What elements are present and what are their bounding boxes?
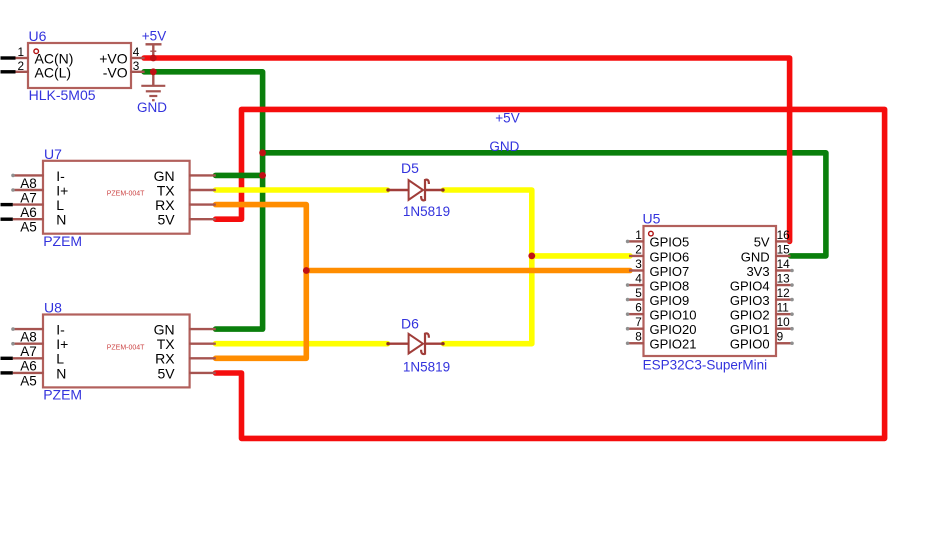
junction dot TX node — [528, 253, 535, 260]
svg-text:A5: A5 — [20, 373, 37, 388]
junction dot +VO/+5V — [150, 55, 157, 62]
wire U7 GN to GND vertical (green) — [216, 173, 263, 179]
svg-text:A6: A6 — [20, 359, 37, 374]
svg-text:L: L — [56, 197, 64, 213]
svg-text:I+: I+ — [56, 182, 68, 198]
svg-text:3: 3 — [133, 59, 140, 73]
svg-text:GND: GND — [489, 139, 519, 154]
svg-text:-VO: -VO — [103, 64, 128, 80]
svg-text:GPIO2: GPIO2 — [730, 307, 770, 322]
svg-text:TX: TX — [157, 182, 176, 198]
svg-text:GPIO6: GPIO6 — [650, 249, 690, 264]
wire D5 cathode / D6 cathode vertical (yellow) — [443, 190, 531, 344]
svg-text:D5: D5 — [401, 160, 419, 176]
svg-text:13: 13 — [777, 271, 791, 285]
svg-text:AC(L): AC(L) — [35, 64, 72, 80]
svg-text:A5: A5 — [20, 220, 37, 235]
svg-text:5V: 5V — [157, 212, 175, 228]
PZEM module U8 PZEM-004T — [11, 315, 216, 388]
svg-text:12: 12 — [777, 286, 790, 300]
svg-text:L: L — [56, 351, 64, 367]
svg-text:U7: U7 — [44, 146, 62, 162]
wire U8 TX to diode D6 (yellow) — [216, 341, 388, 347]
wire U7 TX to diode D5 (yellow) — [216, 187, 388, 193]
svg-text:A7: A7 — [20, 344, 37, 359]
wire N input (black, U8) — [1, 371, 13, 374]
svg-text:1N5819: 1N5819 — [403, 204, 450, 219]
power flag +5V — [146, 44, 162, 58]
svg-text:I-: I- — [56, 322, 65, 338]
PZEM module U7 PZEM-004T — [11, 161, 216, 234]
junction dot GND line at green vertical — [259, 149, 266, 156]
wire GND net: U6 -VO down to U8 GN (green) — [144, 72, 263, 329]
svg-text:GPIO7: GPIO7 — [650, 264, 690, 279]
svg-text:9: 9 — [777, 330, 784, 344]
svg-text:5V: 5V — [754, 235, 770, 250]
diode D6 1N5819 — [386, 333, 444, 354]
svg-text:HLK-5M05: HLK-5M05 — [29, 87, 96, 103]
svg-text:8: 8 — [635, 330, 642, 344]
power module U6 HLK-5M05 — [16, 43, 145, 88]
svg-text:GPIO21: GPIO21 — [650, 337, 697, 352]
svg-text:GPIO3: GPIO3 — [730, 293, 770, 308]
svg-text:A7: A7 — [20, 190, 37, 205]
svg-text:10: 10 — [777, 315, 791, 329]
svg-text:2: 2 — [635, 242, 642, 256]
svg-text:TX: TX — [157, 336, 176, 352]
svg-text:4: 4 — [635, 271, 642, 285]
wire GND branch to U5 pin15 (green) — [263, 153, 826, 256]
svg-text:3V3: 3V3 — [746, 264, 769, 279]
svg-text:GPIO1: GPIO1 — [730, 322, 770, 337]
svg-text:5: 5 — [635, 286, 642, 300]
svg-text:I+: I+ — [56, 336, 68, 352]
wire +VO: U6 pin4 to U5 pin16 5V (red) — [144, 58, 790, 241]
svg-text:U8: U8 — [44, 300, 62, 316]
wire AC(L) input (black) — [1, 70, 16, 73]
svg-text:5V: 5V — [157, 365, 175, 381]
wire U7 RX / U8 RX vertical (orange) — [216, 205, 307, 359]
svg-text:16: 16 — [777, 228, 791, 242]
svg-text:1: 1 — [635, 228, 642, 242]
svg-text:ESP32C3-SuperMini: ESP32C3-SuperMini — [643, 358, 768, 373]
svg-text:N: N — [56, 212, 66, 228]
svg-text:A8: A8 — [20, 330, 37, 345]
svg-text:2: 2 — [17, 59, 24, 73]
svg-text:3: 3 — [635, 257, 642, 271]
svg-text:+5V: +5V — [495, 111, 519, 126]
svg-text:PZEM: PZEM — [43, 233, 82, 249]
junction dot U7 GN at green vertical — [259, 172, 266, 179]
svg-text:1N5819: 1N5819 — [403, 359, 450, 374]
junction dot -VO/GND — [150, 68, 157, 75]
ground symbol GND — [141, 72, 165, 100]
svg-text:GPIO0: GPIO0 — [730, 337, 770, 352]
svg-text:+5V: +5V — [142, 28, 166, 43]
svg-text:6: 6 — [635, 301, 642, 315]
svg-text:GPIO8: GPIO8 — [650, 278, 690, 293]
svg-text:4: 4 — [133, 45, 140, 59]
svg-text:GPIO9: GPIO9 — [650, 293, 690, 308]
wire TX node to U5 GPIO6 pin2 (yellow) — [532, 253, 630, 259]
svg-text:PZEM-004T: PZEM-004T — [107, 344, 145, 351]
wire RX node to U5 GPIO7 pin3 (orange) — [306, 268, 630, 274]
svg-text:GND: GND — [137, 100, 167, 115]
svg-text:1: 1 — [17, 45, 24, 59]
svg-text:U5: U5 — [643, 211, 661, 227]
svg-text:GN: GN — [154, 322, 175, 338]
svg-text:PZEM-004T: PZEM-004T — [107, 191, 145, 198]
svg-text:U6: U6 — [29, 28, 47, 44]
svg-text:A8: A8 — [20, 176, 37, 191]
svg-text:RX: RX — [155, 351, 175, 367]
svg-text:GPIO5: GPIO5 — [650, 235, 690, 250]
svg-text:15: 15 — [777, 242, 791, 256]
svg-text:PZEM: PZEM — [43, 386, 82, 402]
svg-text:11: 11 — [777, 301, 789, 315]
svg-text:I-: I- — [56, 168, 65, 184]
svg-text:GND: GND — [741, 249, 770, 264]
wire +5V loop: U7 5V to U8 5V (red) — [216, 109, 885, 438]
svg-text:A6: A6 — [20, 205, 37, 220]
svg-text:N: N — [56, 365, 66, 381]
wire AC(N) input (black) — [1, 56, 16, 59]
microcontroller U5 ESP32C3-SuperMini — [626, 226, 794, 356]
svg-text:14: 14 — [777, 257, 791, 271]
svg-text:7: 7 — [635, 315, 642, 329]
wire L input (black, U8) — [1, 357, 13, 360]
svg-text:D6: D6 — [401, 316, 419, 332]
svg-text:GPIO10: GPIO10 — [650, 307, 697, 322]
svg-text:RX: RX — [155, 197, 175, 213]
junction dot RX node — [303, 267, 310, 274]
diode D5 1N5819 — [386, 180, 444, 201]
wire L input (black, U7) — [1, 203, 13, 206]
svg-text:GPIO4: GPIO4 — [730, 278, 770, 293]
wire N input (black, U7) — [1, 217, 13, 220]
svg-text:GPIO20: GPIO20 — [650, 322, 697, 337]
svg-text:GN: GN — [154, 168, 175, 184]
